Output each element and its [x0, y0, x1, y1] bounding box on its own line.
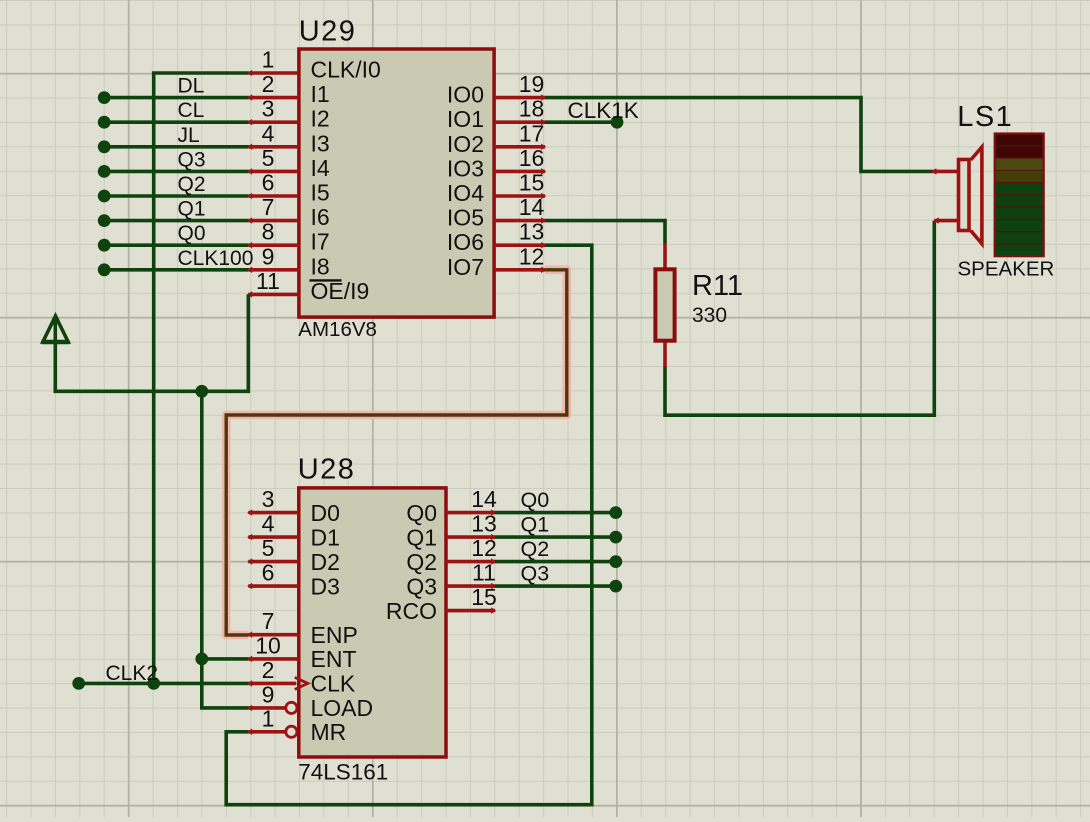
U29 pin 13 (IO6) [447, 219, 546, 256]
wire CLK2 to U28 CLK [72, 662, 248, 690]
svg-text:Q3: Q3 [521, 562, 550, 586]
wire CLK1K (pin18) [545, 98, 639, 129]
svg-text:D1: D1 [311, 524, 340, 550]
U28 pin 12 (Q2) [406, 535, 496, 575]
U29 pin 2 (I1) [247, 71, 329, 107]
svg-text:I1: I1 [311, 81, 330, 107]
svg-text:4: 4 [262, 511, 275, 537]
svg-text:I4: I4 [311, 155, 330, 181]
U29 pin 14 (IO5) [447, 194, 546, 231]
svg-text:5: 5 [262, 535, 275, 561]
U28 pin 13 (Q1) [406, 511, 496, 551]
svg-text:IO3: IO3 [447, 155, 484, 181]
wire R11 bottom to speaker bottom [665, 221, 934, 416]
svg-text:SPEAKER: SPEAKER [958, 258, 1055, 281]
svg-text:CLK2: CLK2 [106, 662, 159, 685]
svg-text:CLK: CLK [311, 671, 356, 697]
svg-text:2: 2 [262, 71, 275, 97]
U29 pin 17 (IO2) [447, 120, 546, 157]
svg-text:15: 15 [471, 584, 497, 610]
svg-text:Q0: Q0 [178, 222, 206, 245]
svg-text:3: 3 [262, 96, 275, 122]
svg-text:D0: D0 [311, 500, 340, 526]
U29 pin 4 (I3) [247, 120, 329, 156]
svg-text:I2: I2 [311, 106, 330, 132]
U29 pin 11 (OE/I9) [247, 268, 369, 304]
U29 pin 18 (IO1) [447, 96, 546, 133]
wire CLK100 net to U29 pin 9 [98, 247, 254, 276]
wire Q3 net to U29 pin 5 [98, 148, 249, 177]
svg-text:CLK100: CLK100 [178, 247, 254, 270]
U29 pin 12 (IO7) [447, 243, 546, 280]
svg-text:LS1: LS1 [957, 101, 1013, 133]
svg-text:11: 11 [256, 268, 280, 294]
U28 pin 6 (D3) [247, 560, 340, 600]
U28 pin 14 (Q0) [406, 486, 497, 526]
svg-text:AM16V8: AM16V8 [298, 318, 377, 341]
U28 pin 1 (MR) [247, 705, 346, 745]
junction dot CLK2/vertical [147, 677, 160, 690]
wire Q2 net to U29 pin 6 [98, 173, 249, 202]
U28 pin 15 (RCO) [386, 584, 497, 624]
svg-text:330: 330 [692, 304, 727, 327]
svg-text:DL: DL [178, 75, 205, 98]
svg-text:8: 8 [262, 219, 275, 245]
U29 pin 16 (IO3) [447, 145, 546, 182]
svg-text:Q2: Q2 [406, 549, 437, 575]
U28 pin 11 (Q3) [406, 560, 496, 600]
wire power rail to ENT and LOAD [202, 391, 249, 708]
svg-text:13: 13 [519, 219, 545, 245]
svg-text:IO2: IO2 [447, 131, 484, 157]
svg-text:CL: CL [178, 99, 205, 122]
U28 pin 5 (D2) [247, 535, 340, 575]
svg-text:17: 17 [519, 120, 545, 146]
svg-text:R11: R11 [692, 270, 743, 302]
svg-text:4: 4 [262, 120, 275, 146]
U28 pin 4 (D1) [247, 511, 340, 551]
svg-text:RCO: RCO [386, 598, 437, 624]
wire Q0 net to U29 pin 8 [98, 222, 249, 251]
svg-text:I7: I7 [311, 229, 330, 255]
svg-text:6: 6 [262, 170, 275, 196]
svg-text:I8: I8 [311, 253, 330, 279]
svg-text:Q3: Q3 [178, 148, 206, 171]
svg-text:14: 14 [471, 486, 497, 512]
svg-text:Q0: Q0 [406, 500, 437, 526]
svg-text:6: 6 [262, 560, 275, 586]
speaker LS1 [931, 101, 1054, 281]
wire Q2 output [495, 537, 622, 568]
svg-text:U29: U29 [299, 16, 357, 48]
svg-text:5: 5 [262, 145, 275, 171]
svg-text:D2: D2 [311, 549, 340, 575]
U29 pin 8 (I7) [247, 219, 329, 255]
svg-text:IO4: IO4 [447, 180, 484, 206]
svg-text:1: 1 [262, 47, 275, 73]
highlighted wire IO7 (pin12) to U28 ENP [226, 270, 567, 635]
IC U29 body (AM16V8) [298, 16, 494, 342]
svg-text:Q1: Q1 [178, 198, 206, 221]
svg-text:2: 2 [262, 657, 275, 683]
svg-text:14: 14 [519, 194, 545, 220]
svg-text:12: 12 [471, 535, 497, 561]
wire Q1 net to U29 pin 7 [98, 198, 249, 227]
svg-text:I5: I5 [311, 180, 330, 206]
svg-text:IO1: IO1 [447, 106, 484, 132]
wire Q3 output [495, 562, 622, 593]
U28 pin 2 (CLK) [247, 657, 356, 697]
svg-text:I6: I6 [311, 204, 330, 230]
svg-text:15: 15 [519, 170, 545, 196]
U28 pin 10 (ENT) [247, 632, 356, 672]
resistor R11 330 [655, 244, 743, 368]
svg-text:7: 7 [262, 194, 275, 220]
svg-text:Q0: Q0 [521, 488, 550, 512]
svg-text:12: 12 [519, 243, 545, 269]
U29 pin 9 (I8) [247, 243, 329, 279]
svg-text:Q2: Q2 [521, 537, 550, 561]
svg-text:7: 7 [262, 608, 275, 634]
svg-text:Q2: Q2 [178, 173, 206, 196]
svg-text:11: 11 [472, 560, 496, 586]
junction dot power rail [195, 385, 208, 398]
wire IO0 (pin19) to speaker top [545, 98, 932, 172]
junction dot ENT [195, 653, 208, 666]
U29 pin 7 (I6) [247, 194, 329, 230]
svg-text:13: 13 [471, 511, 497, 537]
svg-text:1: 1 [262, 705, 275, 731]
svg-text:OE/I9: OE/I9 [311, 278, 370, 304]
wire DL net to U29 pin 2 [98, 75, 249, 104]
IC U28 body (74LS161) [298, 454, 446, 785]
U28 pin 3 (D0) [247, 486, 340, 526]
svg-text:19: 19 [519, 71, 545, 97]
U29 pin 5 (I4) [247, 145, 330, 181]
wire JL net to U29 pin 4 [98, 124, 249, 153]
svg-text:ENT: ENT [311, 646, 357, 672]
svg-text:10: 10 [255, 632, 281, 658]
svg-text:IO5: IO5 [447, 205, 484, 231]
U29 pin 1 (CLK/I0) [247, 47, 381, 83]
svg-text:18: 18 [519, 96, 545, 122]
wire IO6 (pin13) to U28 MR loop [226, 245, 592, 805]
svg-text:CLK/I0: CLK/I0 [311, 57, 381, 83]
wire U29 pin 1 from vertical bus [154, 73, 249, 683]
svg-text:CLK1K: CLK1K [568, 98, 639, 123]
svg-text:9: 9 [262, 681, 275, 707]
svg-text:IO7: IO7 [447, 254, 484, 280]
svg-text:MR: MR [311, 719, 347, 745]
U29 pin 6 (I5) [247, 170, 329, 206]
svg-text:3: 3 [262, 486, 275, 512]
wire CL net to U29 pin 3 [98, 99, 249, 128]
svg-text:IO0: IO0 [447, 82, 484, 108]
svg-text:JL: JL [178, 124, 200, 147]
svg-text:Q1: Q1 [406, 524, 437, 550]
svg-text:16: 16 [519, 145, 545, 171]
U28 pin 7 (ENP) [247, 608, 358, 648]
svg-text:LOAD: LOAD [311, 695, 374, 721]
svg-text:IO6: IO6 [447, 229, 484, 255]
svg-text:ENP: ENP [311, 622, 358, 648]
svg-text:Q3: Q3 [406, 573, 437, 599]
wire IO5 (pin14) to R11 [545, 221, 665, 244]
power symbol (arrow up) [42, 316, 70, 343]
svg-text:I3: I3 [311, 130, 330, 156]
U29 pin 3 (I2) [247, 96, 329, 132]
svg-text:U28: U28 [298, 454, 356, 486]
wire power rail to U29 OE/I9 [55, 294, 248, 391]
svg-text:74LS161: 74LS161 [298, 760, 388, 785]
svg-text:D3: D3 [311, 573, 340, 599]
U29 pin 19 (IO0) [447, 71, 546, 108]
U29 pin 15 (IO4) [447, 170, 546, 207]
svg-text:9: 9 [262, 243, 275, 269]
wire Q1 output [495, 513, 622, 544]
U28 pin 9 (LOAD) [247, 681, 373, 721]
wire Q0 output [495, 488, 622, 519]
svg-text:Q1: Q1 [521, 513, 550, 537]
